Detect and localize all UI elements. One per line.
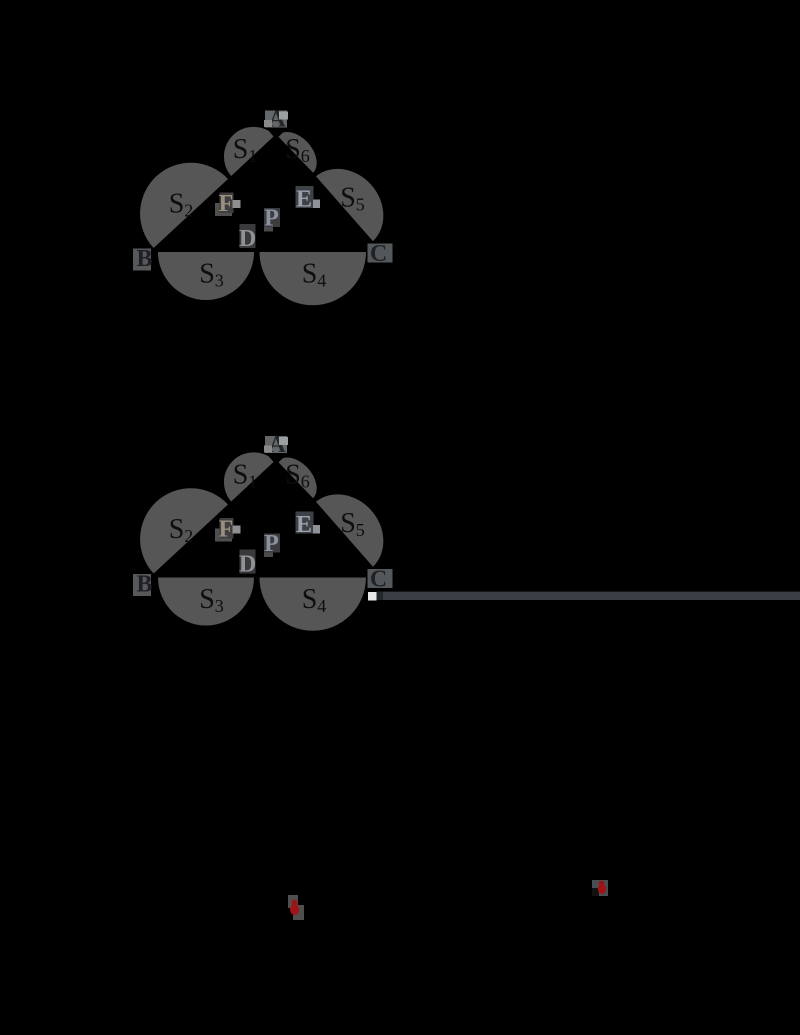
- point label B (second figure): [133, 574, 151, 596]
- red icon 1 backing: [288, 895, 298, 908]
- semicircle S5 (second figure): [316, 494, 383, 566]
- svg-text:D: D: [239, 552, 256, 578]
- side AC extended beyond A (second figure): [266, 451, 276, 462]
- semicircle S3 (second figure): [158, 578, 254, 626]
- artifact square left of A (second figure): [264, 446, 272, 453]
- artifact patch above D (second figure): [240, 550, 251, 557]
- side AC extended beyond A: [266, 126, 276, 137]
- red icon 2 blob: [599, 881, 605, 887]
- semicircle S4 (second figure): [260, 578, 367, 631]
- side AB extended beyond A (second figure): [276, 452, 287, 462]
- point label C (second figure): [368, 569, 393, 588]
- point label E (second figure): [296, 512, 314, 534]
- semicircle S2 (second figure): [140, 488, 228, 573]
- semicircle S3: [158, 252, 254, 300]
- semicircle S5: [316, 169, 383, 241]
- semicircle S1 (second figure): [224, 452, 275, 501]
- svg-text:P: P: [264, 206, 279, 232]
- svg-text:B: B: [136, 246, 152, 272]
- semicircle S2: [140, 163, 228, 248]
- artifact square near A (second figure): [279, 437, 288, 445]
- artifact square near F: [233, 200, 241, 208]
- svg-text:D: D: [239, 226, 256, 252]
- semicircle S6 (second figure): [278, 457, 317, 498]
- point label C: [368, 244, 393, 263]
- svg-text:B: B: [136, 572, 152, 598]
- red icon 1 blob: [292, 900, 298, 906]
- artifact patch above D: [240, 224, 251, 231]
- semicircle S4: [260, 252, 367, 305]
- point label P: [264, 208, 280, 227]
- point label D (second figure): [240, 550, 256, 574]
- point label F (second figure): [220, 518, 234, 539]
- artifact patch below P: [264, 224, 273, 232]
- artifact square near E: [313, 200, 320, 209]
- horizontal rule right of C (second figure): [383, 592, 800, 600]
- artifact square near F (second figure): [233, 526, 241, 534]
- artifact patch left of F: [215, 203, 232, 216]
- red icon 2 backing: [592, 880, 608, 896]
- point label B: [133, 249, 151, 271]
- artifact square near E (second figure): [313, 525, 320, 534]
- point label D: [240, 224, 256, 248]
- svg-text:E: E: [296, 187, 312, 213]
- point label P (second figure): [264, 534, 280, 553]
- side AB extended beyond A: [276, 127, 287, 137]
- dark block between white square and rule: [377, 592, 384, 600]
- svg-text:P: P: [264, 531, 279, 557]
- white square near C (second figure): [368, 592, 377, 601]
- point label A: [265, 111, 287, 128]
- svg-text:E: E: [296, 512, 312, 538]
- svg-text:C: C: [370, 241, 387, 267]
- semicircle S6: [278, 132, 317, 173]
- artifact patch below P (second figure): [264, 549, 273, 557]
- artifact square left of A: [264, 120, 272, 127]
- semicircle S1: [224, 127, 275, 176]
- point label F: [220, 193, 234, 214]
- svg-text:F: F: [219, 191, 234, 217]
- point label E: [296, 186, 314, 208]
- artifact patch left of F (second figure): [215, 529, 232, 542]
- point label A (second figure): [265, 436, 287, 453]
- svg-text:F: F: [219, 517, 234, 543]
- artifact square near A: [279, 112, 288, 120]
- svg-text:C: C: [370, 567, 387, 593]
